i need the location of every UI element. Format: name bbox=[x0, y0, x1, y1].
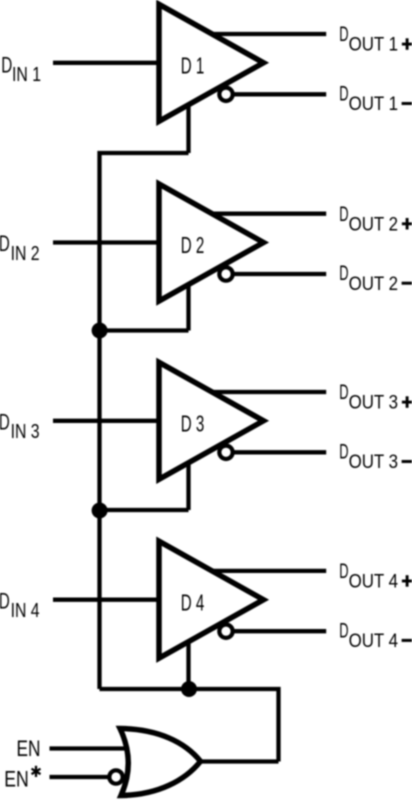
minus sign D_OUT3- bbox=[402, 460, 412, 463]
driver D1 triangle bbox=[159, 4, 264, 121]
wire D_IN3 input bbox=[53, 419, 161, 423]
svg-text:OUT 4: OUT 4 bbox=[349, 571, 399, 593]
plus sign D_OUT3+ bbox=[402, 396, 412, 408]
driver D4 triangle bbox=[159, 541, 264, 658]
inversion bubble D1 bbox=[219, 88, 232, 101]
svg-text:D: D bbox=[339, 202, 348, 226]
svg-text:D 1: D 1 bbox=[181, 52, 205, 78]
wire D_OUT4+ output bbox=[207, 569, 326, 573]
wire D_OUT2- output bbox=[232, 272, 326, 276]
svg-text:OUT 3: OUT 3 bbox=[349, 451, 398, 473]
junction dot D4 enable bbox=[181, 681, 197, 697]
OR gate U1 bbox=[120, 729, 201, 796]
inversion bubble D3 bbox=[219, 446, 232, 459]
svg-text:OUT 4: OUT 4 bbox=[349, 630, 399, 652]
minus sign D_OUT4- bbox=[402, 639, 412, 642]
wire D_OUT1+ output bbox=[207, 32, 326, 36]
svg-text:OUT 2: OUT 2 bbox=[349, 213, 398, 235]
inversion bubble EN* bbox=[109, 770, 122, 783]
wire D_IN2 input bbox=[53, 240, 161, 244]
svg-text:EN: EN bbox=[4, 767, 29, 792]
wire D2 enable horizontal bbox=[100, 328, 189, 332]
wire D_OUT2+ output bbox=[207, 212, 326, 216]
wire enable pin D1 bbox=[186, 101, 190, 153]
svg-text:D: D bbox=[0, 409, 10, 434]
wire D_OUT1- output bbox=[232, 92, 326, 96]
wire D_IN1 input bbox=[53, 61, 161, 65]
plus sign D_OUT2+ bbox=[402, 218, 412, 230]
inversion bubble D2 bbox=[219, 267, 232, 280]
minus sign D_OUT1- bbox=[402, 102, 412, 105]
inversion bubble D4 bbox=[219, 625, 232, 638]
wire EN* input bbox=[50, 775, 109, 779]
wire enable rail vertical with top corner bbox=[100, 153, 189, 689]
svg-text:D 2: D 2 bbox=[181, 232, 205, 258]
svg-text:D 3: D 3 bbox=[181, 410, 205, 436]
wire D_OUT3- output bbox=[232, 450, 326, 454]
svg-text:D 4: D 4 bbox=[181, 589, 205, 615]
svg-text:EN: EN bbox=[17, 736, 41, 761]
plus sign D_OUT4+ bbox=[402, 575, 412, 587]
wire D_IN4 input bbox=[53, 598, 161, 602]
junction dot D2 enable bbox=[92, 323, 108, 339]
svg-text:OUT 1: OUT 1 bbox=[349, 93, 398, 115]
svg-text:D: D bbox=[339, 439, 348, 463]
svg-text:D: D bbox=[339, 22, 348, 46]
wire enable bottom horizontal with right corner bbox=[100, 689, 279, 762]
svg-text:OUT 3: OUT 3 bbox=[349, 392, 398, 414]
minus sign D_OUT2- bbox=[402, 282, 412, 285]
wire enable pin D3 bbox=[186, 459, 190, 510]
svg-text:D: D bbox=[0, 588, 10, 613]
wire enable pin D2 bbox=[186, 281, 190, 331]
svg-text:OUT 1: OUT 1 bbox=[349, 34, 398, 56]
svg-text:D: D bbox=[339, 380, 348, 404]
svg-text:D: D bbox=[1, 52, 12, 77]
svg-text:D: D bbox=[339, 81, 348, 105]
svg-text:IN 1: IN 1 bbox=[12, 64, 41, 86]
svg-text:IN 3: IN 3 bbox=[11, 421, 40, 443]
wire D_OUT4- output bbox=[232, 629, 326, 633]
driver D3 triangle bbox=[159, 362, 264, 479]
svg-text:IN 2: IN 2 bbox=[11, 243, 40, 265]
asterisk of EN* bbox=[32, 766, 41, 777]
svg-text:OUT 2: OUT 2 bbox=[349, 273, 398, 295]
wire enable pin D4 bbox=[186, 638, 190, 689]
wire D3 enable horizontal bbox=[100, 508, 189, 512]
wire OR gate output bbox=[200, 759, 279, 763]
svg-text:D: D bbox=[339, 261, 348, 285]
svg-text:IN 4: IN 4 bbox=[11, 600, 40, 622]
junction dot D3 enable bbox=[92, 503, 108, 519]
wire D_OUT3+ output bbox=[207, 390, 326, 394]
svg-text:D: D bbox=[339, 618, 348, 642]
plus sign D_OUT1+ bbox=[402, 38, 412, 50]
svg-text:D: D bbox=[0, 231, 10, 256]
wire EN input bbox=[50, 746, 129, 750]
svg-text:D: D bbox=[339, 559, 348, 583]
driver D2 triangle bbox=[159, 184, 264, 301]
